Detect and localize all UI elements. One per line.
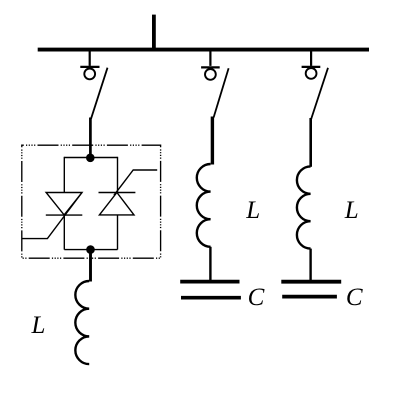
thyristor V2 triangle (right, pointing up) xyxy=(99,193,134,215)
svg-text:L: L xyxy=(344,197,359,224)
wire: node B to L1 xyxy=(89,250,92,282)
node A (top junction dot) xyxy=(86,154,95,163)
disconnector DS1 bar xyxy=(80,66,99,68)
svg-text:L: L xyxy=(31,312,46,339)
capacitor C2 bottom plate xyxy=(181,296,241,300)
bus stub xyxy=(152,15,156,52)
wire: L3 to C3 xyxy=(309,249,311,280)
wire: loop right upper xyxy=(117,157,119,193)
thyristor V1 triangle (left, pointing down) xyxy=(46,193,82,215)
disconnector DS3 stem xyxy=(310,50,312,66)
switch blade S2 xyxy=(214,68,229,117)
thyristor V1 cathode bar xyxy=(46,214,83,216)
inductor L1 coil xyxy=(75,281,89,364)
bus xyxy=(38,48,369,52)
wire: loop right lower xyxy=(117,215,119,250)
disconnector DS3 contact circle xyxy=(306,68,317,79)
capacitor C2 top plate xyxy=(180,280,239,284)
disconnector DS3 bar xyxy=(302,66,321,68)
wire: S3 to L3 xyxy=(309,118,312,167)
disconnector DS2 stem xyxy=(209,50,211,66)
switch blade S3 xyxy=(311,68,328,120)
TCR enclosure (dash-dot box) xyxy=(22,145,161,258)
wire: loop bottom xyxy=(64,249,117,251)
wire: L2 to C2 xyxy=(209,247,211,280)
thyristor V2 gate xyxy=(114,170,157,195)
thyristor V1 gate xyxy=(22,193,82,239)
wire: loop left upper xyxy=(63,157,65,193)
capacitor C3 top plate xyxy=(281,280,341,284)
inductor L3 coil xyxy=(297,166,311,248)
svg-text:C: C xyxy=(346,284,363,311)
wire: S1 to TCR box xyxy=(89,118,92,159)
disconnector DS2 contact circle xyxy=(205,69,216,80)
wire: S2 to L2 xyxy=(211,117,214,165)
capacitor C3 bottom plate xyxy=(282,295,337,299)
wire: loop top xyxy=(64,157,117,159)
disconnector DS2 bar xyxy=(201,66,220,68)
wire: loop left lower xyxy=(63,215,65,250)
switch blade S1 xyxy=(91,68,108,119)
inductor L2 coil xyxy=(197,164,211,247)
disconnector DS1 contact circle xyxy=(84,69,95,80)
svg-text:L: L xyxy=(245,197,260,224)
disconnector DS1 stem xyxy=(89,50,91,66)
node B (bottom junction dot) xyxy=(86,245,95,254)
thyristor V2 cathode bar xyxy=(99,192,136,194)
svg-text:C: C xyxy=(248,284,265,311)
